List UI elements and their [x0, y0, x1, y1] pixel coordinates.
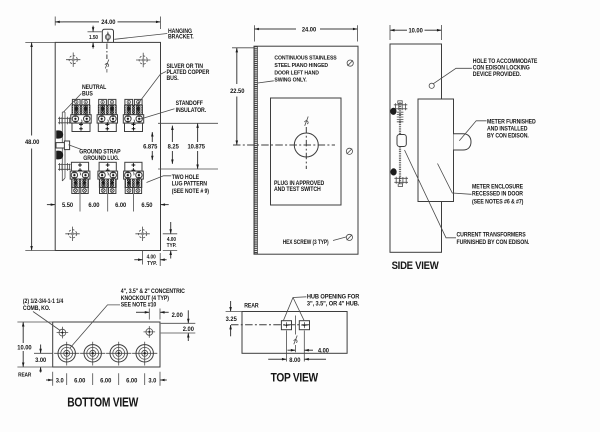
svg-text:6.875: 6.875: [143, 143, 158, 150]
bottom dim ticks: [53, 372, 160, 386]
svg-text:10.00: 10.00: [17, 344, 32, 351]
svg-text:48.00: 48.00: [25, 139, 40, 146]
dim 4.00 top view: [288, 349, 296, 351]
svg-text:1.50: 1.50: [89, 35, 98, 42]
svg-text:HUB OPENING FOR: HUB OPENING FOR: [307, 294, 360, 300]
svg-text:10.875: 10.875: [188, 143, 206, 150]
ground lug blob upper: [56, 130, 63, 138]
dim 48.00: [25, 42, 55, 250]
svg-text:(2) 1/2-3/4-1-1 1/4: (2) 1/2-3/4-1-1 1/4: [23, 299, 64, 305]
leader current transformers: [405, 150, 457, 238]
bus assembly lower 2: [98, 162, 118, 193]
bus assembly upper 1: [71, 99, 91, 131]
hanging bracket: [102, 29, 113, 42]
dim 22.50: [232, 47, 254, 49]
meter enclosure: [418, 99, 454, 202]
dim 2.00 horizontal: [149, 309, 160, 320]
bus assembly lower 1: [70, 162, 90, 193]
svg-text:2.00: 2.00: [183, 326, 195, 333]
svg-text:REAR: REAR: [18, 372, 31, 378]
dim 24.00 door: [254, 25, 357, 41]
CT top fitting: [394, 103, 408, 110]
conductor tick 2: [107, 194, 109, 212]
svg-text:4.00: 4.00: [147, 254, 156, 261]
dim row 5.50/6.00/6.00/6.50: [47, 204, 55, 206]
svg-text:AND TEST SWITCH: AND TEST SWITCH: [274, 187, 321, 193]
dim 10.875: [197, 124, 199, 143]
svg-text:3", 3.5", OR 4" HUB.: 3", 3.5", OR 4" HUB.: [307, 301, 360, 307]
ground lug blob lower: [56, 151, 63, 160]
dim 4.00 TYP bottom: [143, 251, 161, 267]
bracket hole: [105, 34, 110, 39]
svg-text:KNOCKOUT (4 TYP): KNOCKOUT (4 TYP): [121, 296, 169, 302]
dim 4.00 TYP right: [163, 234, 177, 251]
hex screw middle: [346, 148, 352, 154]
dim 10.00 side: [390, 25, 442, 40]
knockout 2: [80, 342, 105, 366]
svg-text:BY CON EDISON.: BY CON EDISON.: [487, 133, 529, 139]
bottom dim arrows: [46, 379, 53, 381]
dim 8.25: [171, 126, 173, 142]
comb KO right: [144, 326, 156, 338]
conductor tick 1: [79, 194, 81, 212]
svg-text:FURNISHED BY CON EDISON.: FURNISHED BY CON EDISON.: [457, 239, 530, 245]
svg-text:8.00: 8.00: [289, 356, 301, 363]
locking hole: [429, 83, 434, 88]
svg-text:(SEE NOTES #6 & #7): (SEE NOTES #6 & #7): [472, 199, 523, 205]
bus assembly upper 2: [97, 99, 117, 131]
svg-text:8.25: 8.25: [168, 143, 180, 150]
door centerline symbol: [304, 117, 308, 126]
svg-text:TYP.: TYP.: [147, 261, 157, 268]
CT blob lower: [391, 168, 397, 175]
svg-text:TYP.: TYP.: [167, 242, 177, 249]
svg-text:6.00: 6.00: [100, 377, 112, 384]
mounting hole top-right: [136, 53, 150, 67]
dim 8.00 top view: [268, 358, 286, 360]
svg-text:4", 3.5" & 2" CONCENTRIC: 4", 3.5" & 2" CONCENTRIC: [121, 289, 185, 295]
svg-text:2.00: 2.00: [172, 311, 184, 318]
hex screw bottom: [346, 234, 352, 240]
CT bottom fitting: [394, 177, 408, 184]
neutral bus top bolts: [58, 117, 71, 125]
svg-text:3.25: 3.25: [226, 315, 238, 322]
svg-text:METER FURNISHED: METER FURNISHED: [487, 119, 536, 125]
dim 3.00: [40, 345, 42, 354]
svg-text:GROUND LUG.: GROUND LUG.: [83, 156, 120, 162]
bus assembly upper 3: [123, 99, 143, 131]
CT washer stack: [397, 112, 404, 122]
meter window rect: [271, 98, 342, 205]
svg-text:STANDOFF: STANDOFF: [176, 101, 204, 107]
dim 6.875: [158, 123, 218, 169]
svg-text:RECESSED IN DOOR: RECESSED IN DOOR: [472, 191, 524, 197]
knockout 1: [54, 342, 79, 366]
svg-text:3.0: 3.0: [56, 377, 64, 384]
dim 3.25: [226, 311, 242, 313]
leader meter furnished: [459, 121, 486, 141]
hub ext lines: [287, 331, 305, 362]
conductor tick 3: [132, 194, 134, 212]
top view centerline symbol: [294, 336, 298, 345]
top view centerline horizontal: [231, 324, 311, 326]
door centerline vertical: [305, 127, 307, 169]
svg-text:METER ENCLOSURE: METER ENCLOSURE: [472, 184, 523, 190]
meter protrusion: [454, 134, 472, 150]
svg-text:DOOR LEFT HAND: DOOR LEFT HAND: [274, 70, 319, 76]
svg-text:AND INSTALLED: AND INSTALLED: [487, 126, 527, 132]
piano hinge strip: [254, 47, 257, 254]
svg-text:LUG PATTERN: LUG PATTERN: [172, 181, 207, 187]
bus assembly lower 3: [124, 162, 144, 193]
leader locking hole: [433, 68, 472, 84]
svg-text:CONTINUOUS STAINLESS: CONTINUOUS STAINLESS: [274, 55, 337, 61]
leader neutral bus: [64, 94, 82, 113]
leader ground strap: [69, 145, 81, 150]
top view outline: [242, 312, 347, 354]
door panel outline: [254, 46, 358, 254]
CT insulator: [397, 135, 406, 147]
dim 1.50: [88, 31, 102, 33]
top view centerline vertical: [295, 316, 297, 353]
bottom view outline: [53, 322, 160, 367]
svg-text:3.00: 3.00: [35, 357, 47, 364]
door centerline horizontal: [233, 144, 335, 146]
leader standoff insulator: [141, 109, 175, 119]
svg-text:6.00: 6.00: [126, 377, 138, 384]
ground strap: [56, 143, 69, 148]
leader silver bus: [138, 72, 167, 105]
leader concentric knockout: [70, 305, 120, 348]
meter circle: [294, 133, 318, 157]
svg-text:SIDE VIEW: SIDE VIEW: [392, 260, 440, 272]
svg-text:(SEE NOTE # 9): (SEE NOTE # 9): [172, 188, 209, 194]
dim 24.00 top: [55, 17, 160, 30]
svg-text:6.00: 6.00: [115, 202, 127, 209]
svg-text:REAR: REAR: [244, 303, 259, 309]
leader hub opening: [284, 297, 307, 321]
svg-text:BOTTOM VIEW: BOTTOM VIEW: [67, 394, 139, 410]
knockout 4: [132, 342, 157, 366]
svg-text:SWING ONLY.: SWING ONLY.: [274, 77, 307, 83]
dim 10.00 bottom view: [17, 322, 52, 367]
KO centerline ext: [34, 352, 53, 354]
svg-text:3.0: 3.0: [148, 377, 156, 384]
leader comb ko: [33, 312, 60, 331]
mounting hole top-left: [66, 53, 80, 67]
CT blob upper: [390, 108, 396, 115]
side view outline: [390, 44, 442, 252]
CT mounting rod: [399, 103, 401, 185]
svg-text:BRACKET.: BRACKET.: [168, 34, 194, 40]
centerline: [106, 44, 108, 60]
front panel outline: [55, 42, 160, 250]
svg-text:24.00: 24.00: [302, 26, 317, 33]
svg-text:SEE NOTE #10: SEE NOTE #10: [121, 302, 156, 308]
svg-text:TWO HOLE: TWO HOLE: [172, 175, 200, 181]
svg-text:TOP VIEW: TOP VIEW: [271, 372, 319, 385]
svg-text:COMB, KO.: COMB, KO.: [23, 306, 51, 312]
neutral bus bottom bolts: [58, 163, 71, 171]
svg-text:BUS.: BUS.: [167, 75, 180, 81]
hub opening right: [299, 321, 309, 330]
mounting hole bottom-left: [65, 227, 79, 241]
svg-text:5.50: 5.50: [62, 202, 74, 209]
svg-text:6.00: 6.00: [74, 377, 86, 384]
leader hinge label: [258, 81, 274, 83]
leader hex screw: [333, 237, 346, 241]
svg-text:GROUND STRAP: GROUND STRAP: [79, 149, 120, 155]
svg-text:4.00: 4.00: [318, 347, 330, 354]
dim 2.00 vertical: [161, 323, 196, 333]
neutral bus strip: [62, 112, 65, 181]
hex screw top: [347, 60, 353, 66]
comb KO left: [57, 327, 69, 339]
svg-text:22.50: 22.50: [230, 88, 245, 95]
svg-text:INSULATOR.: INSULATOR.: [176, 108, 207, 114]
svg-text:24.00: 24.00: [101, 19, 116, 26]
hub opening left: [281, 321, 291, 330]
mounting hole bottom-right: [135, 227, 149, 241]
svg-text:BUS: BUS: [82, 91, 93, 97]
knockout 3: [106, 342, 131, 366]
svg-text:6.00: 6.00: [88, 202, 100, 209]
leader two hole lug pattern: [147, 176, 172, 183]
svg-text:HEX SCREW (3 TYP): HEX SCREW (3 TYP): [283, 240, 329, 247]
svg-text:DEVICE PROVIDED.: DEVICE PROVIDED.: [473, 71, 522, 77]
svg-text:6.50: 6.50: [141, 202, 153, 209]
centerline symbol: [105, 60, 109, 69]
svg-text:10.00: 10.00: [408, 27, 423, 34]
leader meter enclosure: [438, 164, 472, 195]
leader hanging bracket: [114, 34, 167, 40]
svg-text:STEEL PIANO HINGED: STEEL PIANO HINGED: [274, 63, 328, 69]
svg-text:CURRENT TRANSFORMERS: CURRENT TRANSFORMERS: [457, 232, 526, 238]
